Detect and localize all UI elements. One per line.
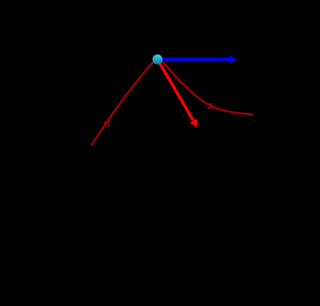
arrowhead on descending curve — [207, 103, 213, 108]
trajectory descending curve — [158, 60, 254, 115]
arrowhead on ascending segment — [104, 121, 109, 127]
velocity vector (blue arrow) — [158, 55, 238, 63]
trajectory ascending segment — [91, 60, 157, 146]
ball (cyan sphere at peak) — [152, 54, 162, 64]
force vector (red arrow) — [158, 60, 198, 128]
